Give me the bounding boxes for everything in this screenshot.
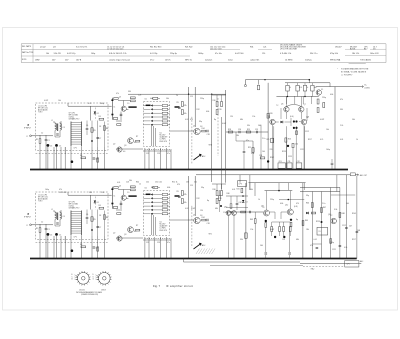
svg-text:220p: 220p bbox=[270, 199, 274, 201]
svg-text:R47: R47 bbox=[323, 207, 326, 209]
svg-text:10.7MHz: 10.7MHz bbox=[160, 228, 166, 230]
svg-text:120: 120 bbox=[262, 53, 265, 55]
svg-text:0.01: 0.01 bbox=[314, 239, 317, 241]
svg-text:IC1: IC1 bbox=[160, 221, 163, 223]
svg-text:0.047: 0.047 bbox=[270, 229, 274, 231]
svg-text:Fig. 7: Fig. 7 bbox=[153, 284, 160, 288]
svg-text:C13: C13 bbox=[157, 153, 160, 155]
svg-text:C1: C1 bbox=[48, 229, 50, 231]
svg-text:6.2: 6.2 bbox=[134, 231, 136, 233]
svg-text:3.3k 470: 3.3k 470 bbox=[54, 53, 61, 55]
svg-text:R105: R105 bbox=[352, 213, 356, 215]
svg-text:R20: R20 bbox=[270, 113, 273, 115]
svg-text:R8: R8 bbox=[80, 155, 82, 157]
svg-text:4.7k: 4.7k bbox=[88, 103, 91, 105]
svg-text:(13.8V): (13.8V) bbox=[365, 87, 371, 89]
svg-text:B+: B+ bbox=[365, 85, 367, 87]
svg-text:1k: 1k bbox=[258, 199, 260, 201]
svg-text:0.01 33p: 0.01 33p bbox=[150, 53, 157, 55]
svg-text:C20: C20 bbox=[219, 109, 222, 111]
svg-text:Q1: Q1 bbox=[119, 186, 121, 188]
svg-text:IC1 X1 X2 T1: IC1 X1 X2 T1 bbox=[76, 46, 87, 48]
svg-text:C47: C47 bbox=[349, 226, 352, 228]
svg-text:C20: C20 bbox=[219, 198, 222, 200]
svg-text:220p 8p: 220p 8p bbox=[170, 53, 177, 55]
svg-text:560: 560 bbox=[314, 87, 317, 89]
svg-text:6.8k: 6.8k bbox=[206, 111, 209, 113]
svg-text:R11 R12 R13: R11 R12 R13 bbox=[150, 46, 161, 48]
svg-text:metal: metal bbox=[228, 58, 233, 61]
svg-text:C7: C7 bbox=[99, 227, 101, 229]
svg-text:120: 120 bbox=[200, 210, 203, 212]
svg-text:1k: 1k bbox=[139, 184, 141, 186]
svg-text:1.5k: 1.5k bbox=[295, 144, 298, 146]
svg-text:0.047: 0.047 bbox=[222, 123, 226, 125]
svg-text:4.7k 68k 1.5k: 4.7k 68k 1.5k bbox=[280, 53, 291, 55]
svg-text:10k: 10k bbox=[326, 129, 329, 131]
svg-text:VR1: VR1 bbox=[209, 145, 212, 147]
svg-text:1S1007: 1S1007 bbox=[335, 46, 342, 48]
svg-text:muRata: muRata bbox=[305, 58, 313, 61]
svg-text:0.022 47p: 0.022 47p bbox=[67, 53, 75, 55]
svg-text:R41: R41 bbox=[237, 189, 240, 191]
svg-text:(6.6): (6.6) bbox=[290, 116, 294, 118]
svg-text:C31: C31 bbox=[288, 161, 291, 163]
svg-text:CP1: CP1 bbox=[74, 237, 77, 239]
svg-text:R9: R9 bbox=[177, 102, 179, 104]
svg-text:47k: 47k bbox=[340, 99, 343, 101]
svg-text:10.7MHz: 10.7MHz bbox=[160, 139, 166, 141]
svg-text:4.7k: 4.7k bbox=[320, 139, 323, 141]
svg-text:MC1357: MC1357 bbox=[160, 135, 166, 137]
svg-text:C28: C28 bbox=[259, 155, 262, 157]
svg-text:R16: R16 bbox=[213, 100, 216, 102]
svg-text:47u: 47u bbox=[167, 153, 170, 155]
svg-text:100p: 100p bbox=[45, 189, 49, 191]
svg-text:Q12: Q12 bbox=[285, 205, 288, 207]
svg-text:C4: C4 bbox=[63, 127, 65, 129]
svg-text:CF1 CF2: CF1 CF2 bbox=[69, 113, 76, 115]
svg-text:NOTE: NOTE bbox=[22, 59, 26, 61]
svg-text:uPC577H 2SC784R: uPC577H 2SC784R bbox=[280, 48, 298, 50]
svg-text:C15: C15 bbox=[190, 96, 193, 98]
svg-text:R1: R1 bbox=[36, 139, 38, 141]
svg-text:C32: C32 bbox=[297, 161, 300, 163]
svg-text:Q3: Q3 bbox=[124, 145, 126, 147]
svg-text:CF1 CF2: CF1 CF2 bbox=[69, 202, 76, 204]
svg-text:56k: 56k bbox=[129, 180, 132, 182]
svg-text:C8: C8 bbox=[99, 126, 101, 128]
svg-text:6.8k: 6.8k bbox=[167, 187, 170, 189]
svg-text:33k: 33k bbox=[240, 239, 243, 241]
svg-text:R9: R9 bbox=[177, 191, 179, 193]
svg-text:C7 C8 C9 C10 C15: C7 C8 C9 C10 C15 bbox=[107, 48, 123, 50]
svg-text:A2531: A2531 bbox=[350, 47, 355, 50]
svg-text:( ) : 9V SUPPLY: ( ) : 9V SUPPLY bbox=[341, 75, 353, 77]
svg-text:R26: R26 bbox=[288, 139, 291, 141]
svg-text:B: B bbox=[72, 278, 73, 280]
svg-text:Q6: Q6 bbox=[281, 104, 283, 106]
svg-text:C25: C25 bbox=[255, 129, 258, 131]
svg-text:10k: 10k bbox=[58, 100, 61, 102]
svg-text:(VIEWED FROM BELOW): (VIEWED FROM BELOW) bbox=[81, 294, 98, 296]
svg-text:1/8W: 1/8W bbox=[35, 59, 40, 61]
svg-text:VR1: VR1 bbox=[209, 234, 212, 236]
svg-text:C7: C7 bbox=[99, 138, 101, 140]
svg-text:R5: R5 bbox=[94, 219, 96, 221]
svg-text:1000p: 1000p bbox=[198, 53, 203, 55]
svg-text:33p: 33p bbox=[199, 121, 202, 123]
svg-text:470: 470 bbox=[177, 184, 180, 186]
svg-text:IF INPUT: IF INPUT bbox=[24, 217, 31, 219]
svg-text:10k: 10k bbox=[46, 53, 49, 55]
svg-text:L1: L1 bbox=[51, 209, 53, 211]
svg-text:68k: 68k bbox=[296, 239, 299, 241]
svg-text:470: 470 bbox=[190, 119, 193, 121]
svg-text:0.02: 0.02 bbox=[185, 208, 188, 210]
svg-text:C12: C12 bbox=[146, 153, 149, 155]
svg-text:R46: R46 bbox=[306, 203, 309, 205]
svg-text:R4: R4 bbox=[99, 116, 101, 118]
svg-text:R6: R6 bbox=[106, 217, 108, 219]
svg-text:Q4: Q4 bbox=[193, 126, 195, 128]
svg-text:0.02: 0.02 bbox=[185, 119, 188, 121]
svg-text:J1: J1 bbox=[26, 136, 28, 138]
svg-text:120: 120 bbox=[230, 116, 233, 118]
svg-text:C21: C21 bbox=[263, 46, 266, 48]
svg-text:TOKO A2531: TOKO A2531 bbox=[360, 58, 371, 61]
svg-text:100p: 100p bbox=[100, 103, 104, 105]
svg-text:2.2k: 2.2k bbox=[138, 95, 141, 97]
svg-text:C42: C42 bbox=[239, 202, 242, 204]
svg-text:R21: R21 bbox=[248, 147, 251, 149]
svg-text:47k: 47k bbox=[184, 105, 187, 107]
svg-text:C3: C3 bbox=[50, 145, 52, 147]
svg-text:47k: 47k bbox=[184, 194, 187, 196]
svg-text:9.1: 9.1 bbox=[321, 89, 323, 91]
svg-text:2.2k: 2.2k bbox=[101, 192, 104, 194]
svg-text:330: 330 bbox=[89, 192, 92, 194]
svg-text:R21 R22: R21 R22 bbox=[185, 46, 192, 48]
svg-text:100p: 100p bbox=[91, 53, 95, 55]
svg-text:L201 L202: L201 L202 bbox=[59, 192, 67, 194]
svg-text:16V B: 16V B bbox=[76, 59, 82, 61]
svg-text:470: 470 bbox=[296, 203, 299, 205]
svg-text:330: 330 bbox=[340, 109, 343, 111]
svg-text:5.8: 5.8 bbox=[200, 126, 202, 128]
svg-text:0.047: 0.047 bbox=[191, 208, 195, 210]
svg-text:3.3k: 3.3k bbox=[251, 153, 254, 155]
svg-text:1k: 1k bbox=[289, 87, 291, 89]
svg-text:R19: R19 bbox=[247, 129, 250, 131]
svg-text:C112: C112 bbox=[305, 131, 309, 133]
svg-text:2.1: 2.1 bbox=[268, 117, 270, 119]
svg-text:R14: R14 bbox=[202, 128, 205, 130]
svg-text:2.2u: 2.2u bbox=[322, 203, 325, 205]
svg-text:C112: C112 bbox=[342, 225, 346, 227]
svg-text:7.2: 7.2 bbox=[276, 105, 278, 107]
svg-text:68k: 68k bbox=[215, 208, 218, 210]
svg-text:TOKO: TOKO bbox=[38, 112, 43, 114]
svg-text:8p: 8p bbox=[214, 119, 216, 121]
svg-text:ceramic mylar chemi-con: ceramic mylar chemi-con bbox=[109, 58, 130, 61]
svg-text:8p: 8p bbox=[296, 219, 298, 221]
svg-text:100: 100 bbox=[346, 203, 349, 205]
svg-text:33p: 33p bbox=[201, 187, 204, 189]
svg-text:NPO SL: NPO SL bbox=[185, 59, 192, 61]
svg-text:E: E bbox=[72, 274, 73, 276]
svg-text:0.01: 0.01 bbox=[150, 98, 153, 100]
svg-text:1.9: 1.9 bbox=[127, 192, 129, 194]
svg-text:MC1357: MC1357 bbox=[160, 224, 166, 226]
svg-text:IFT DET COIL: IFT DET COIL bbox=[38, 108, 48, 110]
svg-text:R16: R16 bbox=[213, 189, 216, 191]
svg-text:120: 120 bbox=[282, 239, 285, 241]
svg-text:3.2: 3.2 bbox=[330, 215, 332, 217]
svg-text:4.7k: 4.7k bbox=[299, 87, 302, 89]
svg-text:ADJ: ADJ bbox=[202, 155, 205, 158]
svg-text:J1: J1 bbox=[26, 225, 28, 227]
svg-text:2SC1030 2SA628 1S2473: 2SC1030 2SA628 1S2473 bbox=[280, 43, 302, 46]
svg-text:1.5k: 1.5k bbox=[252, 116, 255, 118]
svg-text:C13: C13 bbox=[157, 242, 160, 244]
svg-text:10.7MHz: 10.7MHz bbox=[285, 59, 293, 61]
svg-text:6.8k 1k 330 47k 2.2k: 6.8k 1k 330 47k 2.2k bbox=[109, 53, 127, 55]
svg-text:33k 2.2u: 33k 2.2u bbox=[310, 53, 317, 55]
svg-text:47k: 47k bbox=[116, 93, 119, 95]
svg-text:D1: D1 bbox=[97, 113, 99, 115]
svg-text:IF amplifier circuit: IF amplifier circuit bbox=[166, 284, 193, 288]
svg-text:C2: C2 bbox=[41, 133, 43, 135]
svg-text:IC1: IC1 bbox=[145, 99, 148, 101]
svg-text:Q4: Q4 bbox=[193, 215, 195, 217]
svg-text:220p: 220p bbox=[151, 187, 155, 189]
svg-text:2SK19: 2SK19 bbox=[101, 290, 106, 292]
svg-text:5% J: 5% J bbox=[150, 59, 154, 61]
svg-text:560: 560 bbox=[258, 125, 261, 127]
svg-text:560: 560 bbox=[260, 245, 263, 247]
svg-text:R7: R7 bbox=[136, 136, 138, 138]
svg-text:33p: 33p bbox=[306, 195, 309, 197]
svg-text:Q3: Q3 bbox=[124, 234, 126, 236]
svg-text:R117: R117 bbox=[352, 239, 356, 241]
svg-text:47u: 47u bbox=[310, 245, 313, 247]
svg-text:C4: C4 bbox=[63, 216, 65, 218]
svg-text:R117: R117 bbox=[308, 139, 312, 141]
svg-text:4.7k: 4.7k bbox=[344, 247, 347, 249]
svg-text:5.8: 5.8 bbox=[200, 215, 202, 217]
svg-text:CP1: CP1 bbox=[74, 148, 77, 150]
svg-text:R123: R123 bbox=[282, 151, 286, 153]
svg-text:1.5k: 1.5k bbox=[223, 212, 226, 214]
svg-text:C18: C18 bbox=[207, 223, 210, 225]
svg-text:0.01: 0.01 bbox=[232, 189, 235, 191]
svg-text:IC1: IC1 bbox=[160, 132, 163, 134]
svg-text:56k: 56k bbox=[250, 189, 253, 191]
svg-text:R1: R1 bbox=[36, 228, 38, 230]
svg-text:18k: 18k bbox=[236, 135, 239, 137]
svg-text:R6: R6 bbox=[106, 128, 108, 130]
svg-text:1.9: 1.9 bbox=[127, 103, 129, 105]
svg-text:R48: R48 bbox=[342, 213, 345, 215]
svg-text:R18: R18 bbox=[228, 129, 231, 131]
svg-text:CP3: CP3 bbox=[239, 184, 242, 186]
svg-text:0.022: 0.022 bbox=[44, 100, 48, 102]
svg-text:CF3: CF3 bbox=[279, 161, 282, 163]
svg-text:0.047 560: 0.047 560 bbox=[235, 53, 243, 55]
svg-text:100: 100 bbox=[262, 151, 265, 153]
svg-text:0.022: 0.022 bbox=[320, 119, 324, 121]
svg-text:B12: B12 bbox=[364, 48, 367, 50]
svg-text:220p: 220p bbox=[200, 98, 204, 100]
svg-text:10% K: 10% K bbox=[165, 59, 171, 61]
svg-text:2.2u: 2.2u bbox=[262, 138, 265, 140]
svg-text:R49: R49 bbox=[305, 220, 308, 222]
svg-text:47u: 47u bbox=[246, 140, 249, 142]
svg-text:100p: 100p bbox=[330, 242, 334, 244]
svg-text:1.5k: 1.5k bbox=[250, 229, 253, 231]
svg-text:IF INPUT: IF INPUT bbox=[24, 128, 31, 130]
svg-text:Q7: Q7 bbox=[304, 104, 306, 106]
svg-text:C3: C3 bbox=[50, 234, 52, 236]
svg-text:C2: C2 bbox=[41, 222, 43, 224]
svg-text:47k: 47k bbox=[59, 189, 62, 191]
svg-text:R12: R12 bbox=[197, 109, 200, 111]
svg-text:C31 0.02: C31 0.02 bbox=[155, 182, 162, 184]
svg-text:1k: 1k bbox=[356, 139, 358, 141]
svg-text:SFE10.7MA: SFE10.7MA bbox=[330, 58, 341, 61]
svg-text:0.01: 0.01 bbox=[117, 182, 120, 184]
svg-text:Q2: Q2 bbox=[113, 144, 115, 146]
svg-text:1k: 1k bbox=[176, 95, 178, 97]
svg-text:33k: 33k bbox=[247, 125, 250, 127]
svg-text:C125: C125 bbox=[288, 156, 292, 158]
svg-text:Q1: Q1 bbox=[119, 97, 121, 99]
svg-text:C121: C121 bbox=[332, 249, 336, 251]
svg-text:47u: 47u bbox=[167, 242, 170, 244]
svg-text:R14: R14 bbox=[202, 217, 205, 219]
svg-text:6.8k: 6.8k bbox=[330, 94, 333, 96]
svg-text:C121: C121 bbox=[300, 149, 304, 151]
svg-text:R7: R7 bbox=[136, 225, 138, 227]
svg-text:R43: R43 bbox=[250, 219, 253, 221]
svg-text:ADJ: ADJ bbox=[202, 244, 205, 247]
svg-text:L1: L1 bbox=[51, 120, 53, 122]
svg-text:330: 330 bbox=[128, 91, 131, 93]
svg-text:C12: C12 bbox=[146, 242, 149, 244]
svg-text:R31: R31 bbox=[250, 46, 253, 48]
svg-text:IFT DET COIL: IFT DET COIL bbox=[38, 197, 48, 199]
svg-text:Q3: Q3 bbox=[53, 46, 56, 48]
svg-text:C24: C24 bbox=[238, 129, 241, 131]
svg-text:2SC535: 2SC535 bbox=[79, 290, 85, 292]
svg-text:R40: R40 bbox=[227, 193, 230, 195]
svg-text:56k: 56k bbox=[352, 119, 355, 121]
svg-text:6.2: 6.2 bbox=[134, 142, 136, 144]
svg-text:C8: C8 bbox=[99, 215, 101, 217]
svg-text:8p: 8p bbox=[207, 200, 209, 202]
svg-text:470p 56k: 470p 56k bbox=[330, 53, 338, 55]
svg-text:L1 L2 10.7M: L1 L2 10.7M bbox=[38, 195, 48, 197]
svg-text:RB-2: RB-2 bbox=[311, 268, 315, 270]
svg-text:D1: D1 bbox=[97, 202, 99, 204]
svg-text:100u 6.3V: 100u 6.3V bbox=[370, 53, 379, 55]
svg-text:18k 1.2k: 18k 1.2k bbox=[352, 53, 359, 55]
svg-text:R12: R12 bbox=[197, 198, 200, 200]
svg-text:220: 220 bbox=[146, 182, 149, 184]
svg-text:3.3k: 3.3k bbox=[334, 209, 337, 211]
svg-text:0.01: 0.01 bbox=[340, 139, 343, 141]
svg-text:7.2: 7.2 bbox=[306, 117, 308, 119]
svg-text:Q2: Q2 bbox=[113, 233, 115, 235]
svg-text:0.6: 0.6 bbox=[123, 151, 125, 153]
svg-text:10k: 10k bbox=[184, 113, 187, 115]
svg-text:FM IF SYS: FM IF SYS bbox=[160, 141, 168, 143]
svg-text:18k: 18k bbox=[306, 229, 309, 231]
svg-text:R8: R8 bbox=[80, 244, 82, 246]
svg-text:220: 220 bbox=[270, 149, 273, 151]
svg-text:FM IF SYS: FM IF SYS bbox=[160, 230, 168, 232]
svg-text:6.8k: 6.8k bbox=[280, 203, 283, 205]
svg-text:47u 10u: 47u 10u bbox=[215, 53, 222, 55]
svg-text:IC1: IC1 bbox=[145, 188, 148, 190]
svg-text:*: * bbox=[337, 69, 338, 71]
svg-text:S: S bbox=[93, 276, 94, 278]
svg-text:7.4: 7.4 bbox=[262, 207, 264, 209]
svg-text:C16 C17 C18: C16 C17 C18 bbox=[210, 48, 221, 50]
svg-text:tantalum: tantalum bbox=[205, 58, 213, 61]
svg-text:carbon film: carbon film bbox=[250, 58, 260, 61]
svg-text:R5: R5 bbox=[94, 130, 96, 132]
svg-text:100p: 100p bbox=[326, 149, 330, 151]
svg-text:220p: 220p bbox=[322, 97, 326, 99]
svg-text:X1: X1 bbox=[319, 231, 321, 233]
svg-text:2.2k: 2.2k bbox=[340, 125, 343, 127]
svg-text:Q1 Q2: Q1 Q2 bbox=[40, 46, 46, 48]
svg-text:56k: 56k bbox=[166, 98, 169, 100]
svg-text:R4: R4 bbox=[99, 205, 101, 207]
svg-text:68k: 68k bbox=[240, 119, 243, 121]
svg-text:C1: C1 bbox=[48, 140, 50, 142]
svg-text:(6.8): (6.8) bbox=[294, 206, 298, 208]
svg-text:R123: R123 bbox=[316, 221, 320, 223]
svg-text:10k: 10k bbox=[184, 202, 187, 204]
svg-text:TOKO: TOKO bbox=[38, 201, 43, 203]
svg-text:C18: C18 bbox=[207, 134, 210, 136]
svg-text:CP5: CP5 bbox=[347, 264, 350, 266]
svg-text:C15: C15 bbox=[190, 185, 193, 187]
svg-text:R105: R105 bbox=[270, 157, 274, 159]
svg-text:L1 L2 10.7M: L1 L2 10.7M bbox=[38, 106, 48, 108]
svg-text:C48: C48 bbox=[357, 230, 360, 232]
svg-text:1k: 1k bbox=[307, 87, 309, 89]
